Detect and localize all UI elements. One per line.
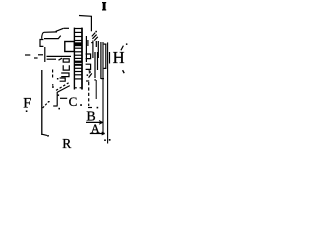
dot right of C (80, 104, 82, 106)
svg-text:F: F (23, 96, 31, 112)
rear bracket top tick (104, 43, 107, 45)
rear mid vertical 2 (97, 52, 99, 70)
A dimension line (90, 133, 105, 135)
rear cover edge (109, 52, 111, 64)
terminal socket 1 (86, 54, 91, 59)
damper rect A (63, 59, 69, 62)
front housing top curve (42, 32, 57, 39)
pulley rung 9 (74, 67, 82, 69)
pulley dark band 2 (75, 61, 82, 66)
foot front vertical (56, 92, 58, 106)
B dimension line (86, 121, 103, 123)
rear bracket vertical (105, 44, 107, 69)
small dot above foot (52, 86, 54, 88)
pulley rung 5 (74, 47, 82, 49)
shaft end dash (64, 27, 69, 29)
R tick dot right (109, 139, 111, 141)
terminal squiggle (89, 71, 91, 74)
pulley rung 6 (74, 51, 82, 53)
rear mid vertical 1 (94, 52, 96, 78)
pulley left rail (73, 28, 75, 90)
foot lower diagonal (57, 86, 70, 93)
rear housing edge A (107, 42, 109, 143)
F dimension line (41, 70, 43, 135)
pulley rung 11 (74, 74, 82, 76)
pulley rung 10 (74, 71, 82, 73)
R tick dot (47, 135, 49, 137)
svg-text:R: R (62, 136, 71, 150)
foot dots (58, 108, 60, 110)
front housing second line (44, 36, 61, 39)
ear lower vertical (44, 47, 46, 62)
damper dot (57, 78, 59, 80)
rear bracket bottom tick (104, 67, 107, 69)
foot area dot (58, 94, 60, 96)
rear lower thin vertical (95, 80, 97, 99)
foot top dash (60, 97, 67, 99)
rear housing fin 1 (92, 41, 94, 59)
rear housing fin 3 (97, 41, 99, 58)
shaft hatch stroke 3 (94, 37, 98, 41)
pulley top rung (74, 28, 82, 30)
centerline dash left (25, 54, 30, 56)
svg-text:C: C (69, 94, 78, 109)
centerline dash 2 (34, 57, 38, 59)
damper tick diagonal (59, 58, 63, 60)
rear mid dot (94, 79, 95, 80)
H prime dot (126, 43, 128, 45)
pulley band 2 white stripe (75, 62, 82, 65)
flange short line lower (47, 58, 56, 60)
svg-text:H: H (113, 48, 125, 67)
terminal socket 2 (86, 64, 91, 69)
fin 1 top tick (91, 42, 93, 44)
foot bottom tick (53, 105, 57, 107)
pulley rung 12 (74, 78, 82, 80)
stray dot top left of nut (52, 86, 53, 87)
shaft hatch dot (95, 31, 97, 33)
hidden dash dot (52, 84, 53, 85)
rear housing fin 2 (95, 41, 97, 47)
terminal diagonal (89, 73, 92, 77)
pulley foot right (80, 87, 82, 89)
leader zigzag near F line (43, 102, 51, 108)
body front edge vertical (85, 36, 87, 62)
hub rectangle (65, 42, 75, 52)
A arrow right (102, 132, 105, 135)
pulley rung 4 (74, 40, 82, 42)
pulley rung 8 (74, 57, 82, 59)
dimension leader for I (horizontal) (79, 15, 92, 18)
B arrow right (99, 121, 103, 125)
hidden dashed line (foot hole) (52, 70, 54, 79)
body front edge inner dash (87, 40, 89, 46)
shaft hatch stroke 1 (92, 33, 95, 37)
pulley dark band 1 (75, 42, 82, 46)
dimension label I (102, 2, 106, 11)
terminal dot (87, 74, 89, 76)
fin 4 foot (101, 78, 104, 80)
pulley rung 7 (74, 54, 82, 56)
terminal bottom dash (86, 80, 89, 82)
damper U shape B (63, 65, 69, 70)
damper bracket C (61, 73, 69, 77)
rear housing fin 4 (100, 42, 102, 79)
hidden dashed vertical (rear) (88, 82, 90, 106)
pulley foot left (74, 87, 76, 89)
top diagonal tick (56, 28, 64, 31)
H prime tick (121, 46, 124, 51)
dimension leader for I (vertical) (90, 16, 92, 31)
centerline dash 3 (38, 54, 43, 56)
mounting ear (open rect) (40, 40, 43, 47)
rear bottom tick (88, 107, 92, 109)
shaft hatch stroke 2 (92, 35, 96, 39)
foot upper diagonal dashed (56, 83, 69, 91)
H comma tick (123, 70, 125, 73)
flange long line (47, 55, 72, 57)
damper bracket D (60, 78, 66, 81)
rear bottom dot (97, 107, 99, 109)
stray dot left bottom (26, 110, 28, 112)
pulley rung 3 (74, 36, 82, 38)
rear housing edge B (102, 42, 104, 133)
pulley rung 2 (74, 31, 82, 33)
R dimension tick left (42, 134, 47, 135)
pulley right rail (81, 28, 83, 90)
R tick dot mid (104, 139, 106, 141)
